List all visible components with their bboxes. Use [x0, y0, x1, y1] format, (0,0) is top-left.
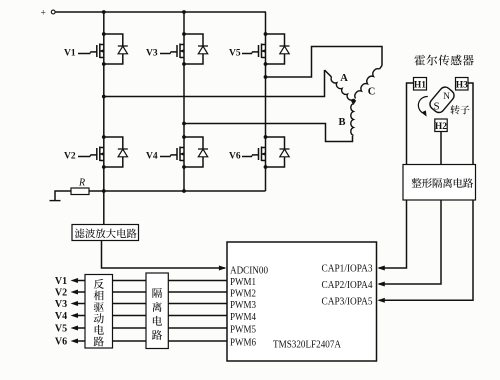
wire: V3 source to V4 drain: [183, 64, 185, 137]
svg-text:N: N: [443, 92, 450, 102]
winding A coil: [325, 70, 332, 77]
wire: V2 source to negative rail: [103, 168, 105, 192]
hall sensor H3: [456, 78, 469, 91]
wire PWM6 isolation to driver: [113, 340, 147, 342]
node: phase A tap: [102, 95, 106, 99]
wire: rail to filter box: [103, 191, 105, 225]
rotor magnet: [428, 85, 457, 115]
wire PWM4 isolation to driver: [113, 315, 147, 317]
wire: V5 source to V6 drain: [265, 64, 267, 137]
svg-text:PWM5: PWM5: [230, 325, 256, 336]
svg-text:PWM6: PWM6: [230, 338, 256, 349]
svg-text:H3: H3: [456, 80, 468, 90]
DSP block TMS320LF2407A: [227, 242, 377, 361]
svg-text:PWM3: PWM3: [230, 300, 256, 311]
wire PWM3 isolation to driver: [113, 303, 147, 305]
wire: phase A: [104, 70, 325, 97]
wire PWM3 driver output to V3: [78, 303, 86, 305]
wire: H3 to shaping box: [468, 83, 473, 165]
block: shaping isolation circuit: [403, 165, 476, 201]
star point node: [351, 99, 355, 103]
node: V2 leg to rail: [102, 189, 106, 193]
svg-text:V4: V4: [146, 152, 158, 162]
node: V4 leg to rail: [182, 189, 186, 193]
wire PWM2 DSP to isolation: [168, 291, 227, 293]
wire: phase C: [266, 47, 383, 78]
svg-text:H1: H1: [414, 80, 426, 90]
wire PWM4 DSP to isolation: [168, 315, 227, 317]
svg-text:CAP2/IOPA4: CAP2/IOPA4: [322, 280, 374, 291]
wire PWM6 DSP to isolation: [168, 340, 227, 342]
svg-text:R: R: [78, 178, 85, 189]
ground symbol: [55, 191, 71, 200]
wire: CAP1: [379, 200, 407, 268]
wire: phase B: [184, 124, 353, 142]
svg-text:V5: V5: [229, 49, 241, 59]
top supply rail wire: [55, 11, 266, 13]
wire PWM5 DSP to isolation: [168, 327, 227, 329]
wire: V6 source to negative rail: [265, 168, 267, 192]
svg-text:+: +: [41, 9, 46, 19]
block: filter amplifier circuit: [72, 225, 139, 241]
svg-text:V5: V5: [55, 324, 67, 335]
svg-text:V4: V4: [55, 311, 67, 322]
wire PWM5 driver output to V5: [78, 327, 86, 329]
svg-text:V3: V3: [146, 49, 158, 59]
wire PWM2 isolation to driver: [113, 291, 147, 293]
svg-text:PWM4: PWM4: [230, 312, 257, 323]
svg-text:V3: V3: [55, 299, 67, 310]
negative rail wire: [89, 190, 266, 192]
wire PWM5 isolation to driver: [113, 327, 147, 329]
rotation arrow: [418, 96, 427, 112]
svg-text:B: B: [338, 117, 345, 128]
svg-text:V6: V6: [55, 337, 67, 348]
wire PWM1 isolation to driver: [113, 280, 147, 282]
svg-text:V6: V6: [229, 152, 241, 162]
wire: V4 source to negative rail: [183, 168, 185, 192]
wire: V1 leg drain: [103, 12, 105, 34]
wire: CAP2: [379, 200, 441, 284]
svg-text:ADCIN00: ADCIN00: [230, 266, 268, 277]
wire: V1 source to V2 drain: [103, 64, 105, 137]
transistor V6: [229, 135, 290, 169]
resistor R: [71, 188, 89, 195]
wire: H2 to shaping box: [440, 132, 442, 165]
svg-text:CAP3/IOPA5: CAP3/IOPA5: [322, 296, 373, 307]
svg-text:H2: H2: [435, 122, 447, 132]
wire PWM1 driver output to V1: [78, 280, 86, 282]
svg-text:C: C: [368, 87, 376, 98]
svg-text:V1: V1: [55, 276, 67, 287]
arrowhead into ADCIN00: [219, 266, 227, 271]
svg-text:A: A: [340, 73, 348, 84]
node: phase B tap: [182, 122, 186, 126]
wire PWM1 DSP to isolation: [168, 280, 227, 282]
wire PWM2 driver output to V2: [78, 291, 86, 293]
wire: V5 leg drain: [265, 12, 267, 34]
transistor V1: [64, 32, 128, 66]
svg-text:V1: V1: [64, 49, 76, 59]
wire: H1 to shaping box: [407, 83, 414, 165]
svg-text:S: S: [433, 101, 439, 113]
transistor V5: [229, 32, 290, 66]
label: Hall sensors title: [414, 55, 473, 66]
svg-text:V2: V2: [64, 152, 76, 162]
svg-text:TMS320LF2407A: TMS320LF2407A: [273, 340, 341, 351]
node: rail to V3 leg: [182, 10, 186, 14]
wire PWM6 driver output to V6: [78, 340, 86, 342]
svg-text:V2: V2: [55, 288, 67, 299]
block: inverting drive circuit: [85, 275, 113, 349]
wire: V3 leg drain: [183, 12, 185, 34]
svg-text:CAP1/IOPA3: CAP1/IOPA3: [322, 264, 373, 275]
wire: CAP3: [379, 200, 473, 300]
wire: filter box to ADCIN00: [102, 241, 226, 269]
transistor V2: [64, 135, 128, 169]
block: isolation circuit: [146, 273, 168, 349]
svg-text:PWM2: PWM2: [230, 289, 256, 300]
hall sensor H2: [435, 119, 447, 132]
winding C coil: [380, 66, 383, 70]
svg-text:PWM1: PWM1: [230, 277, 256, 288]
wire PWM3 DSP to isolation: [168, 303, 227, 305]
hall sensor H1: [414, 78, 427, 91]
label: rotor: [450, 105, 469, 114]
node: rail to V1 leg: [102, 10, 106, 14]
transistor V3: [146, 32, 208, 66]
winding B coil: [351, 104, 354, 136]
transistor V4: [146, 135, 208, 169]
wire PWM4 driver output to V4: [78, 315, 86, 317]
node: phase C tap: [264, 75, 268, 79]
